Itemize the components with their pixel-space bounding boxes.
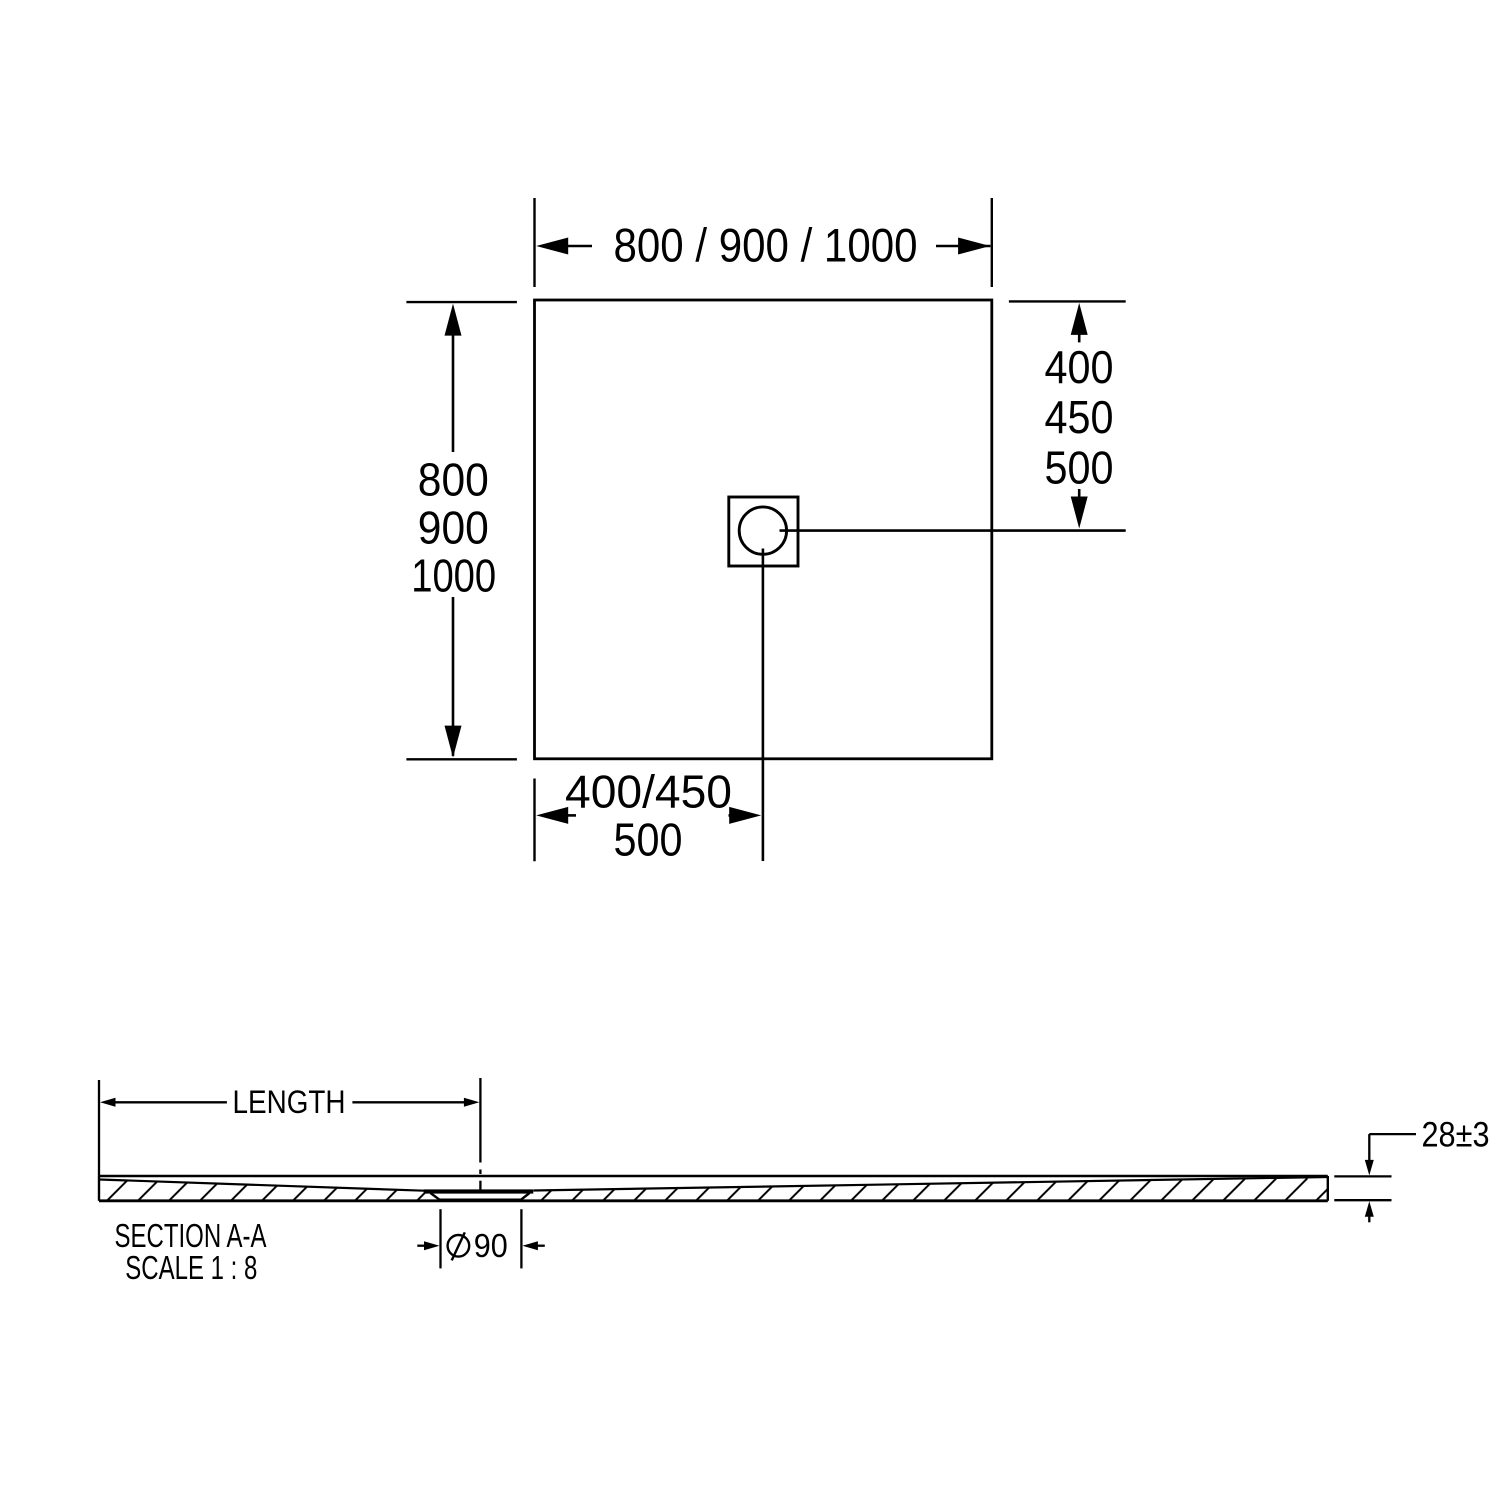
right dimension text 400 — [1045, 341, 1114, 393]
top dimension extension line left — [533, 198, 535, 287]
left dimension text 800 — [418, 454, 489, 506]
section title text — [115, 1217, 267, 1254]
svg-text:1000: 1000 — [411, 550, 496, 602]
svg-text:500: 500 — [1045, 441, 1114, 493]
drain leader line horizontal — [780, 529, 1126, 532]
section floor slope line left — [100, 1180, 425, 1191]
left dimension extension line top — [406, 301, 517, 303]
section floor slope line right — [534, 1177, 1328, 1191]
thickness extension line bottom — [1334, 1199, 1391, 1201]
bottom dimension line with arrows — [536, 807, 761, 824]
left dimension line with arrows — [445, 304, 462, 758]
drain leader line vertical — [762, 549, 765, 862]
right dimension text 450 — [1045, 391, 1114, 443]
svg-text:90: 90 — [474, 1227, 508, 1264]
drain circle — [739, 507, 786, 554]
svg-text:28±3: 28±3 — [1422, 1116, 1490, 1155]
left dimension extension line bottom — [406, 758, 517, 760]
diameter symbol — [448, 1232, 470, 1260]
svg-text:400: 400 — [1045, 341, 1114, 393]
right dimension line with arrows — [1071, 303, 1088, 529]
diameter 90 text — [474, 1227, 508, 1264]
section bar outline — [99, 1176, 1328, 1201]
section drain left wall — [431, 1193, 440, 1199]
svg-text:SCALE 1 : 8: SCALE 1 : 8 — [125, 1249, 257, 1286]
drain square (plan view) — [729, 497, 798, 566]
section drain right wall — [522, 1193, 530, 1199]
thickness text 28±3 — [1422, 1116, 1490, 1155]
section centre line (dash-dot) — [479, 1078, 481, 1190]
svg-text:800 / 900 / 1000: 800 / 900 / 1000 — [614, 219, 918, 272]
svg-text:500: 500 — [614, 814, 683, 866]
left dimension text 1000 — [411, 550, 496, 602]
bottom dimension text 500 — [614, 814, 683, 866]
bottom dimension text 400/450 — [565, 766, 732, 818]
length dimension line with arrows — [100, 1098, 479, 1107]
section drain bottom — [439, 1199, 523, 1202]
tray outline square (plan view) — [535, 300, 992, 759]
left dimension text 900 — [418, 502, 489, 554]
svg-text:900: 900 — [418, 502, 489, 554]
svg-text:800: 800 — [418, 454, 489, 506]
length dimension text — [233, 1084, 346, 1120]
diameter 90 extension line left — [439, 1209, 441, 1268]
diameter 90 arrows — [417, 1241, 545, 1250]
top dimension extension line right — [991, 198, 993, 287]
section bar hatching — [95, 1170, 1335, 1205]
thickness leader and arrows — [1365, 1134, 1416, 1222]
right dimension extension line — [1009, 300, 1126, 302]
thickness extension line top — [1334, 1175, 1391, 1177]
length dimension extension line — [98, 1080, 100, 1176]
top dimension line with arrows — [536, 238, 990, 255]
scale text — [125, 1249, 257, 1286]
svg-text:LENGTH: LENGTH — [233, 1084, 346, 1120]
diameter 90 extension line right — [520, 1209, 522, 1268]
right dimension text 500 — [1045, 441, 1114, 493]
bottom dimension extension line — [533, 779, 535, 862]
svg-text:450: 450 — [1045, 391, 1114, 443]
svg-text:400/450: 400/450 — [565, 766, 732, 818]
top dimension text 800 / 900 / 1000 — [614, 219, 918, 272]
section drain flange — [424, 1189, 534, 1193]
